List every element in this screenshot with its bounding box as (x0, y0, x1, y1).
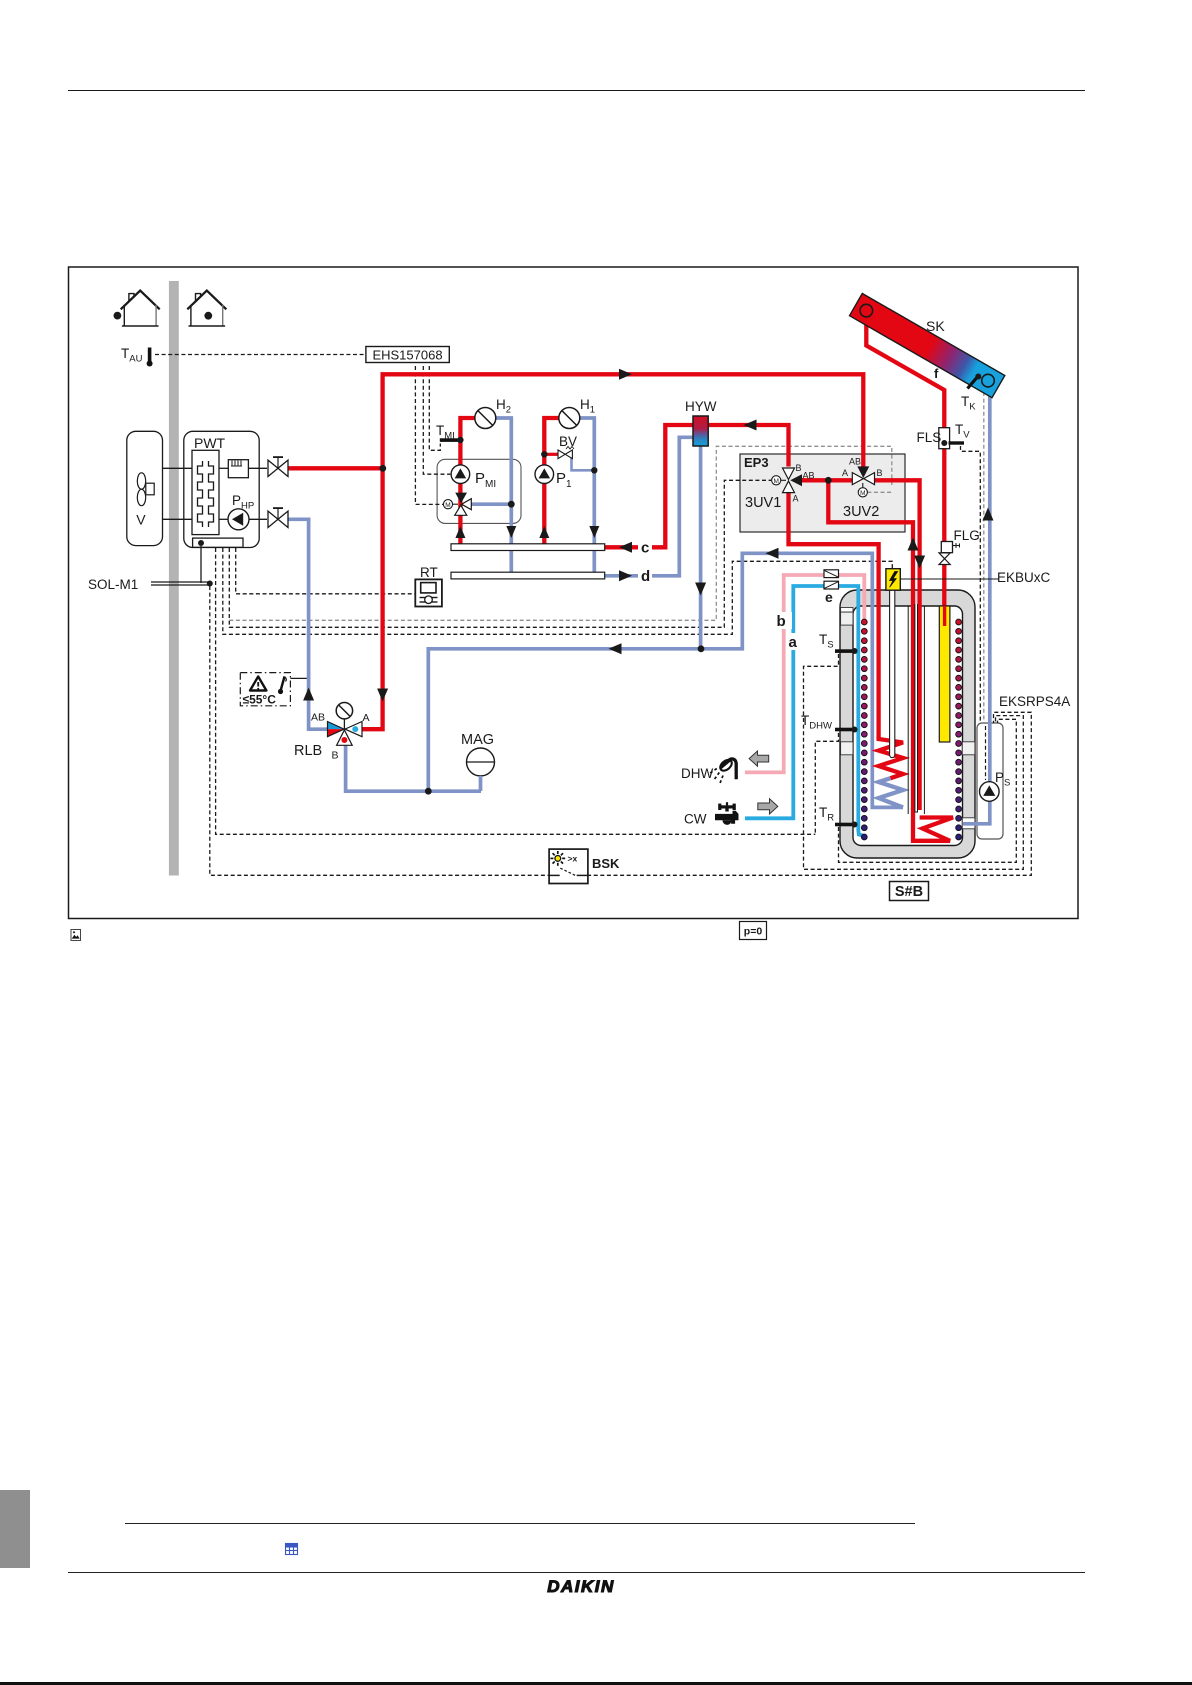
svg-text:EHS157068: EHS157068 (372, 347, 442, 362)
svg-text:EKBUxC: EKBUxC (997, 570, 1051, 585)
svg-text:DHW: DHW (681, 766, 713, 781)
svg-text:B: B (332, 750, 339, 762)
svg-text:M: M (773, 478, 778, 485)
svg-text:RLB: RLB (294, 743, 322, 759)
svg-text:3UV1: 3UV1 (745, 495, 781, 511)
svg-text:PWT: PWT (194, 435, 226, 451)
svg-text:≤55°C: ≤55°C (243, 693, 277, 707)
svg-text:BSK: BSK (592, 856, 620, 871)
svg-text:EKSRPS4A: EKSRPS4A (999, 694, 1070, 709)
svg-text:M: M (860, 490, 865, 497)
svg-text:FLG: FLG (954, 528, 980, 543)
svg-text:V: V (136, 512, 146, 528)
svg-text:S#B: S#B (895, 884, 923, 900)
svg-text:b: b (777, 613, 786, 630)
svg-text:A: A (363, 712, 370, 724)
svg-text:B: B (796, 463, 802, 473)
svg-text:HYW: HYW (685, 399, 717, 414)
svg-text:FLS: FLS (917, 430, 942, 445)
svg-text:M: M (445, 502, 450, 509)
svg-text:A: A (842, 468, 848, 478)
svg-text:BV: BV (559, 434, 577, 449)
svg-text:f: f (934, 366, 939, 381)
svg-text:B: B (877, 468, 883, 478)
svg-text:AB: AB (803, 471, 815, 481)
svg-text:EP3: EP3 (744, 455, 769, 470)
svg-text:AB: AB (311, 712, 325, 724)
svg-text:RT: RT (420, 565, 438, 580)
svg-text:CW: CW (684, 812, 707, 827)
svg-text:AB: AB (849, 457, 861, 467)
svg-text:e: e (825, 589, 833, 605)
svg-text:>x: >x (568, 854, 578, 864)
svg-text:3UV2: 3UV2 (843, 504, 879, 520)
svg-text:SK: SK (926, 318, 945, 334)
svg-text:DAIKIN: DAIKIN (547, 1577, 615, 1596)
svg-text:a: a (789, 634, 798, 651)
svg-text:SOL-M1: SOL-M1 (88, 577, 138, 592)
svg-text:d: d (641, 568, 650, 585)
svg-text:MAG: MAG (461, 732, 494, 748)
svg-text:c: c (641, 540, 649, 557)
svg-text:A: A (793, 494, 799, 504)
svg-text:p=0: p=0 (744, 926, 763, 938)
